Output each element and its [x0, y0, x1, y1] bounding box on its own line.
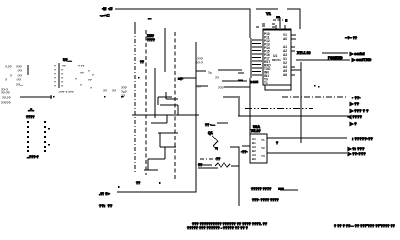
- svg-text:▷ ??? ? ?: ▷ ??? ? ?: [349, 108, 369, 113]
- wire crystal stubs to U1: [276, 25, 285, 29]
- svg-text:??: ??: [215, 76, 219, 80]
- svg-text:: ?????·??: : ?????·??: [352, 136, 373, 141]
- gate U2C output: [224, 86, 250, 88]
- node out2 labels: [347, 146, 366, 156]
- svg-text:??·?: ??·?: [196, 61, 203, 65]
- svg-text:89C51: 89C51: [272, 58, 281, 62]
- svg-text:??: ??: [80, 71, 84, 75]
- svg-text:????: ????: [147, 38, 155, 42]
- wire U1 bottom stub: [291, 69, 301, 71]
- svg-text:????? ??? ?????? - ????? ?? ??: ????? ??? ?????? - ????? ?? ?? ?: [187, 226, 248, 230]
- svg-text:··?·· ??: ··?·· ??: [345, 36, 357, 40]
- wire step e: [160, 146, 176, 148]
- svg-text:▷ ??·???: ▷ ??·???: [347, 151, 366, 156]
- junction dots bottom: [118, 182, 161, 188]
- svg-text:???: ???: [218, 86, 224, 90]
- connector J2: [26, 115, 50, 159]
- junction dot 3: [121, 96, 124, 98]
- svg-text:▷ ?: ▷ ?: [349, 121, 357, 126]
- resistor R1: [198, 157, 239, 168]
- svg-text:Q1: Q1: [208, 131, 213, 135]
- crystal Y1: [266, 11, 288, 28]
- svg-text:??: ??: [103, 89, 107, 93]
- svg-text:· ??·: · ??·: [352, 95, 361, 100]
- svg-text:?=: ?=: [208, 71, 212, 75]
- svg-text:?? ·—: ?? ·—: [205, 123, 215, 127]
- svg-text:···: ···: [148, 17, 152, 21]
- wire rail to U3: [249, 78, 251, 134]
- svg-text:??: ??: [112, 89, 116, 93]
- svg-text:??: ??: [140, 60, 144, 64]
- resistor RP1 network: [251, 38, 262, 78]
- svg-text:?: ?: [80, 83, 82, 87]
- IC U2: [54, 58, 94, 94]
- wire VCC top rail: [115, 9, 250, 38]
- wire dash-dot ALE: [282, 96, 347, 98]
- gate U2B output: [222, 80, 247, 82]
- wire top segment to crystal: [256, 8, 278, 10]
- svg-text:Y1: Y1: [266, 11, 272, 16]
- svg-text:·??·: ·??·: [241, 150, 248, 154]
- svg-text:-.--·-□: -.--·-□: [100, 14, 110, 18]
- op-amp U1 right pin stubs: [291, 35, 296, 75]
- op-amp U1 microcontroller box: [263, 29, 291, 85]
- svg-text:B3: B3: [252, 157, 256, 161]
- capacitor C1: [262, 24, 265, 26]
- junction dot 2: [104, 96, 106, 98]
- wire step g: [144, 169, 158, 171]
- connector J1: [1, 65, 24, 105]
- wire bottom long: [117, 115, 196, 192]
- gate U2A output: [218, 69, 242, 71]
- svg-text:?: ?: [5, 78, 7, 82]
- wire long data: [238, 115, 350, 117]
- wire stub top A: [134, 22, 136, 30]
- gate U2D output: [223, 96, 240, 98]
- svg-text:Y1: Y1: [261, 138, 265, 142]
- IC U3 RS232: [250, 125, 267, 163]
- wire y78: [178, 77, 196, 79]
- bus wire dash-dot A: [134, 30, 136, 172]
- svg-text:8 9C5: 8 9C5: [250, 80, 258, 84]
- svg-text:·??? ?·???: ·??? ?·???: [58, 90, 74, 94]
- wire TXD long: [296, 59, 350, 61]
- svg-text:?: ?: [61, 84, 63, 88]
- svg-text:T1: T1: [264, 81, 268, 85]
- svg-text:? ?? ? ??— ?? ???’??? ??’????: ? ?? ? ??— ?? ???’??? ??’???? ??: [334, 224, 395, 228]
- wire step b: [160, 104, 178, 106]
- wire stubs left of RP1: [238, 73, 244, 80]
- svg-text:??: ??: [88, 78, 92, 82]
- wire step verticals: [148, 92, 178, 170]
- svg-text:◁ ????: ◁ ????: [347, 114, 363, 119]
- svg-text:?: ?: [276, 141, 278, 145]
- bus wire dashed B: [145, 30, 147, 175]
- svg-text:??: ??: ??: ??: [99, 203, 113, 208]
- svg-text:A6: A6: [283, 73, 287, 77]
- wire corner to bottom: [230, 147, 239, 206]
- svg-text:?: ?: [90, 86, 92, 90]
- svg-text:A0: A0: [283, 37, 287, 41]
- svg-text:▷ ser/TXD: ▷ ser/TXD: [351, 57, 371, 62]
- wire top right corner: [287, 9, 300, 29]
- svg-text:Y3: Y3: [261, 154, 265, 158]
- wire to RXD: [322, 52, 348, 54]
- svg-text:..???·?: ..???·?: [27, 155, 39, 159]
- op-amp U1 right pin labels: [272, 33, 287, 77]
- wire y115 mid: [132, 114, 199, 116]
- bus wire solid D: [164, 28, 166, 72]
- wire U1 down right: [300, 62, 302, 143]
- svg-text:·??: ·??: [17, 69, 22, 73]
- svg-text:?: ?: [10, 74, 12, 78]
- wire stub vert: [238, 98, 240, 116]
- junction dot 1: [53, 96, 55, 98]
- svg-text:..?..: ..?..: [28, 108, 34, 112]
- svg-text:.?! ?>: .?! ?>: [99, 191, 110, 196]
- wire step f: [148, 158, 165, 160]
- svg-text:? ??: ? ??: [78, 64, 84, 68]
- svg-text:·??: ·??: [16, 78, 21, 82]
- wire U3 out2: [267, 152, 347, 154]
- svg-text:????: ????: [26, 115, 35, 119]
- svg-text:????? ????: ????? ????: [251, 187, 271, 191]
- bus wire dashed C: [174, 32, 176, 180]
- wire dash right mid: [200, 158, 216, 160]
- svg-text:?: ?: [75, 77, 77, 81]
- wire U3 left input: [242, 145, 250, 147]
- svg-text:??: ??: [216, 157, 220, 161]
- wire U1 bottom loop: [265, 85, 291, 90]
- svg-text:?: ?: [54, 84, 56, 88]
- svg-text:???· ???? ????: ???· ???? ????: [252, 198, 279, 202]
- node XU label: [147, 34, 155, 42]
- svg-text:?.??: ?.??: [5, 65, 12, 69]
- svg-text:?: ?: [92, 73, 94, 77]
- svg-text:??.??: ??.??: [2, 96, 11, 100]
- wire step c: [151, 122, 167, 124]
- wire step a: [158, 96, 172, 98]
- node VCC label top left: [100, 7, 112, 18]
- svg-text:▷ ??: ▷ ??: [349, 101, 360, 106]
- svg-text:?????: ?????: [1, 101, 11, 105]
- transistor Q1: [205, 123, 228, 150]
- node gate labels: [196, 57, 224, 90]
- svg-text:??: ??: [136, 181, 140, 185]
- svg-text:U?__: U?__: [63, 58, 72, 62]
- text U3 under labels: [251, 187, 298, 202]
- wire bar left: [20, 95, 52, 99]
- wire step d: [158, 132, 178, 134]
- svg-text:XTL1 18: XTL1 18: [297, 51, 310, 55]
- svg-text:??: ??: [121, 94, 125, 98]
- svg-text:??·??: ??·??: [1, 91, 10, 95]
- node R label cluster: [103, 86, 127, 98]
- op-amp U1 left pin labels: [264, 32, 271, 85]
- svg-text:▷ serial: ▷ serial: [349, 51, 365, 56]
- wire dash short: [245, 108, 313, 110]
- bus wire solid E: [154, 68, 156, 118]
- svg-text:?: ?: [88, 69, 90, 73]
- wire J1 edge: [27, 65, 29, 75]
- capacitor C2: [272, 24, 275, 27]
- junction dots right: [314, 85, 320, 88]
- wire gate stubs: [196, 71, 208, 86]
- svg-text:P30/RXD: P30/RXD: [328, 56, 343, 60]
- wire U1 pin XTAL label: [297, 51, 343, 60]
- svg-text:·M ·/J: ·M ·/J: [102, 7, 112, 11]
- wire U3 out1: [267, 137, 347, 139]
- svg-text:74LS?: 74LS?: [251, 129, 261, 133]
- bus wire solid F: [195, 42, 197, 192]
- svg-text:??—: ??—: [16, 83, 24, 87]
- svg-text:Y2: Y2: [261, 146, 265, 150]
